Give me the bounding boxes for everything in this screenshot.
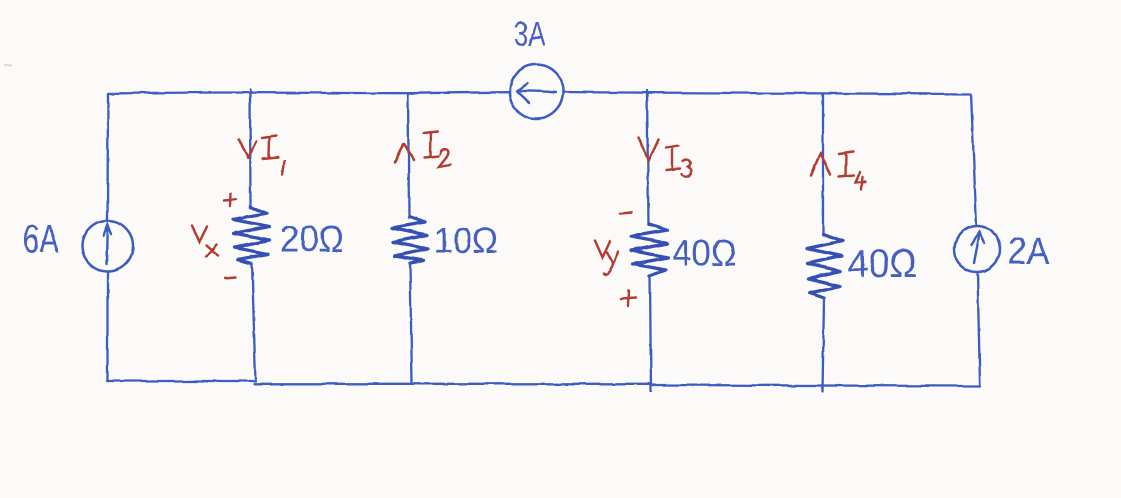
wire top horizontal left (node A to 3A source)	[108, 92, 509, 93]
wire branch1 upper (top wire to R1)	[249, 90, 252, 209]
svg-text:10Ω: 10Ω	[434, 222, 498, 261]
svg-text:40Ω: 40Ω	[848, 242, 917, 286]
resistor R3 zigzag	[631, 224, 668, 276]
wire top horizontal right (3A source to right corner)	[565, 92, 971, 94]
resistor R1 zigzag	[233, 207, 270, 264]
plus sign (bottom of R3)	[621, 291, 636, 307]
wire branch3 upper (top wire to R3)	[647, 91, 649, 226]
svg-text:3A: 3A	[514, 16, 545, 54]
label I2	[424, 132, 451, 167]
current source 3A arrow (left)	[517, 84, 556, 103]
wire right vertical lower (2A source to bottom corner)	[978, 272, 981, 386]
minus sign (top of R3)	[620, 213, 632, 214]
wire branch4 upper (top wire to R4)	[822, 94, 824, 236]
resistor R2 zigzag	[392, 217, 428, 264]
wire bottom horizontal left segment	[107, 380, 256, 382]
svg-text:20Ω: 20Ω	[280, 219, 344, 260]
wire left vertical lower (6A source to bottom corner)	[106, 272, 108, 381]
wire branch3 lower (R3 to bottom wire, slight overshoot)	[650, 276, 651, 391]
current source 2A circle	[954, 226, 1000, 272]
annotation arrow I2 (up)	[395, 144, 414, 164]
stray pencil mark left edge	[5, 64, 11, 67]
label I3	[666, 146, 692, 177]
wire branch2 lower (R2 to bottom wire)	[410, 264, 412, 385]
y subscript	[604, 252, 618, 276]
label Vx with polarity	[192, 194, 237, 279]
wire branch4 lower (R4 to bottom wire, slight overshoot)	[823, 298, 825, 392]
wire left vertical upper (top corner to 6A source)	[106, 94, 109, 222]
wire bottom horizontal right segment	[651, 385, 980, 386]
label I1	[262, 136, 285, 176]
wire bottom horizontal middle segment	[254, 383, 651, 385]
annotation arrow I4 (up)	[811, 153, 831, 176]
current source 3A circle	[510, 65, 564, 119]
V of Vy	[595, 241, 610, 258]
annotation arrow I3 (down)	[639, 138, 659, 162]
svg-text:6A: 6A	[23, 218, 59, 262]
wire branch2 upper (top wire to R2)	[408, 94, 409, 218]
current source 6A circle	[82, 221, 133, 272]
svg-text:40Ω: 40Ω	[672, 233, 737, 274]
x subscript	[206, 245, 218, 257]
plus sign (top of R1)	[224, 194, 237, 207]
wire right vertical upper (top corner to 2A source)	[971, 94, 977, 226]
annotation arrow I1 (down)	[239, 139, 257, 159]
resistor R4 zigzag	[807, 234, 842, 298]
current source 2A arrow (up)	[972, 232, 985, 263]
svg-text:2A: 2A	[1008, 231, 1050, 273]
label Vy with polarity	[595, 213, 636, 307]
V of Vx	[192, 226, 207, 243]
current source 6A arrow (up)	[104, 225, 112, 265]
label I4	[839, 152, 866, 190]
minus sign (bottom of R1)	[225, 277, 236, 278]
wire branch1 lower (R1 to bottom wire)	[252, 264, 256, 382]
